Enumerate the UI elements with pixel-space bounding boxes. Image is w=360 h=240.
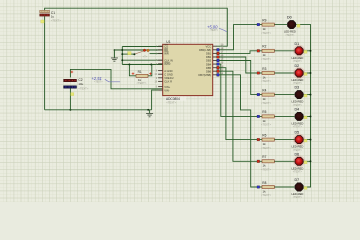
pin-voltage marker 0V yellow on D7 cathode <box>304 187 307 190</box>
resistor R4 <box>262 93 274 96</box>
svg-text:WR: WR <box>164 52 169 56</box>
node logic state square and number pin 20 VCC <box>221 43 224 46</box>
node logic state indicator at R5 <box>257 115 260 118</box>
resistor R6 <box>262 138 274 141</box>
wire row D7 resistor to LED and cathode to bus <box>257 186 311 188</box>
junction RD wire / ground stem <box>114 49 116 51</box>
svg-text:D7: D7 <box>295 178 300 182</box>
pin 9 VREF/2 left stub <box>156 76 174 80</box>
wire DB0 net to LED row <box>216 25 257 50</box>
wire C2 negative lead to ground rail <box>69 88 71 109</box>
node logic state indicator at R8 <box>257 186 260 189</box>
svg-text:CLK IN: CLK IN <box>164 58 173 62</box>
pin 5 INTR left stub <box>156 62 171 66</box>
resistor R2 <box>262 49 274 52</box>
wire VCC net: C1 top to U1 VCC pin 20 <box>45 8 228 46</box>
svg-text:VIN+: VIN+ <box>164 85 170 89</box>
svg-text:10u: 10u <box>78 82 83 86</box>
wire row D0 resistor to LED and cathode to bus <box>257 24 311 26</box>
pin 11 DB7(MSB) right stub <box>198 73 223 77</box>
svg-text:R4: R4 <box>262 88 266 92</box>
pin-voltage marker 0V yellow on D5 cathode <box>304 139 307 142</box>
wire CLK IN pin 4 <box>122 59 162 61</box>
LED D7 <box>295 183 303 191</box>
wire DB5 net to LED row <box>216 68 257 140</box>
node logic state square and number pin 16 DB2 <box>217 54 224 58</box>
op-amp U1 ADC0804 body <box>163 44 213 95</box>
wire row D2 resistor to LED and cathode to bus <box>257 72 311 74</box>
LED D2 <box>293 67 305 79</box>
svg-text:ADC0804: ADC0804 <box>166 97 180 101</box>
svg-text:<T>: <T> <box>143 56 148 59</box>
svg-text:<TEXT>: <TEXT> <box>136 81 146 85</box>
svg-text:DB7(MSB): DB7(MSB) <box>198 73 211 77</box>
pin-voltage marker 0V yellow on D1 cathode <box>304 50 307 53</box>
pin 8 A GND left stub <box>156 69 173 73</box>
wire row D1 resistor to LED and cathode to bus <box>257 50 311 52</box>
junction INTR wire / R1 right leg <box>150 64 152 66</box>
node logic state indicator at R6 <box>257 138 260 141</box>
svg-text:INTR: INTR <box>164 62 170 66</box>
wire R1 left leg <box>129 65 136 76</box>
wire row D5 resistor to LED and cathode to bus <box>257 139 311 141</box>
wire ground rail horizontal <box>45 109 152 111</box>
LED D0 <box>288 21 296 29</box>
junction D1 cathode on bus <box>310 50 312 52</box>
junction D5 cathode on bus <box>310 139 312 141</box>
pin 19 CLK R left stub <box>154 80 172 84</box>
node logic state indicator at R3 <box>257 72 260 75</box>
ground symbol GND2 on RD/CS net <box>113 50 115 58</box>
svg-text:CLK R: CLK R <box>164 80 172 84</box>
svg-text:+2.51: +2.51 <box>91 76 101 81</box>
svg-text:CS: CS <box>164 44 168 48</box>
pin 15 DB3 right stub <box>206 59 224 63</box>
svg-text:R7: R7 <box>262 155 266 159</box>
LED D5 <box>293 134 305 146</box>
svg-text:<TEXT>: <TEXT> <box>293 196 303 199</box>
svg-text:C GND: C GND <box>164 72 173 76</box>
pin 12 DB6 right stub <box>206 69 224 73</box>
svg-text:<TEXT>: <TEXT> <box>293 149 303 152</box>
node logic state square and number pin 11 DB7(MSB) <box>217 72 224 76</box>
node logic state square and number pin 15 DB3 <box>217 58 224 62</box>
wire VIN- pin 7 riser from ground rail <box>152 90 159 110</box>
resistor R5 <box>262 115 274 118</box>
svg-text:D4: D4 <box>295 108 300 112</box>
resistor R9 <box>262 23 274 26</box>
node logic state indicator at R9 <box>257 23 260 26</box>
junction D2 cathode on bus <box>310 72 312 74</box>
voltage probe VIN+ blue annotation <box>91 76 120 84</box>
LED D6 <box>293 155 305 167</box>
junction CS column / button wire <box>121 53 123 55</box>
svg-text:<TEXT>: <TEXT> <box>261 79 271 83</box>
pin 4 CLK IN left stub <box>156 58 173 62</box>
wire LED cathode bus vertical <box>310 25 312 187</box>
push button actuator blade <box>134 51 143 54</box>
wire DB3 net to LED row <box>216 61 257 95</box>
wire CS pin 1 to ground column <box>122 46 162 48</box>
svg-text:RD: RD <box>164 48 168 52</box>
wire DB1 net to LED row <box>216 51 257 54</box>
pin-voltage marker 0V yellow on D0 cathode <box>297 24 300 27</box>
LED D1 <box>293 45 305 57</box>
svg-text:<TEXT>: <TEXT> <box>261 31 271 35</box>
svg-text:<TEXT>: <TEXT> <box>261 123 271 127</box>
node logic state square and number pin 17 DB1 <box>217 51 224 55</box>
junction D3 cathode on bus <box>310 94 312 96</box>
pin 7 VIN- left stub <box>156 88 170 92</box>
voltage probe VCC blue annotation <box>207 24 227 32</box>
push button contact red <box>143 49 146 52</box>
pin 16 DB2 right stub <box>206 55 224 59</box>
pin 3 WR left stub <box>156 52 169 56</box>
svg-text:D5: D5 <box>295 131 300 135</box>
wire button left terminal <box>122 53 134 55</box>
svg-text:<TEXT>: <TEXT> <box>94 81 103 84</box>
svg-text:VIN-: VIN- <box>164 88 169 92</box>
svg-text:<TEXT>: <TEXT> <box>285 34 295 37</box>
junction INTR wire / R1 left leg <box>128 64 130 66</box>
svg-text:<TEXT>: <TEXT> <box>210 29 219 32</box>
svg-text:R3: R3 <box>262 67 266 71</box>
node logic state square and number pin 12 DB6 <box>217 68 224 72</box>
pin-voltage marker + left of R1 <box>132 72 135 75</box>
svg-text:<TEXT>: <TEXT> <box>261 101 271 105</box>
pin-voltage marker + right of R1 <box>149 72 152 75</box>
svg-text:<TEXT>: <TEXT> <box>293 60 303 63</box>
svg-text:<TEXT>: <TEXT> <box>293 104 303 107</box>
pin 10 C GND left stub <box>154 72 173 76</box>
junction D4 cathode on bus <box>310 115 312 117</box>
junction ground rail / C2 negative <box>69 109 71 111</box>
wire DB2 net to LED row <box>216 57 257 73</box>
ground symbol GND1 <box>149 110 151 114</box>
svg-text:D6: D6 <box>295 152 300 156</box>
pin-voltage marker 0V yellow on D6 cathode <box>304 161 307 164</box>
resistor R7 <box>262 160 274 163</box>
pin 13 DB5 right stub <box>206 66 224 70</box>
node logic state square and number pin 18 DB0(LSB) <box>217 47 224 51</box>
capacitor C1 top plate <box>40 10 50 12</box>
pin 18 DB0(LSB) right stub <box>199 48 224 52</box>
svg-text:<TEXT>: <TEXT> <box>293 126 303 129</box>
svg-text:1u: 1u <box>51 15 55 19</box>
svg-text:<TEXT>: <TEXT> <box>51 19 61 23</box>
wire INTR pin 5 horizontal <box>122 64 162 66</box>
svg-text:R5: R5 <box>262 110 266 114</box>
wire RD pin 2 <box>114 49 162 51</box>
node logic state indicator at R7 <box>257 160 260 163</box>
pin-voltage marker 0V yellow on C2 negative <box>71 93 74 96</box>
pin-voltage marker 0V yellow on C1 negative <box>41 20 44 23</box>
resistor R8 <box>262 185 274 188</box>
LED D3 <box>295 91 303 99</box>
node logic state square and number pin 13 DB5 <box>217 65 224 69</box>
node logic state indicator at R2 <box>257 50 260 53</box>
capacitor C1 bottom plate <box>40 14 50 16</box>
pin 17 DB1 right stub <box>206 52 224 56</box>
pin 2 RD left stub <box>156 48 168 52</box>
wire vertical ground column left of U1 <box>121 47 123 65</box>
junction D6 cathode on bus <box>310 160 312 162</box>
svg-text:R2: R2 <box>262 45 266 49</box>
wire DB4 net to LED row <box>216 64 257 116</box>
junction CS column / RD wire <box>121 49 123 51</box>
svg-text:DB4: DB4 <box>206 62 212 66</box>
svg-text:<TEXT>: <TEXT> <box>261 168 271 172</box>
wire DB7 net to LED row <box>216 75 257 187</box>
node logic state indicator at R4 <box>257 93 260 96</box>
svg-text:DB2: DB2 <box>206 55 212 59</box>
svg-text:VREF/2: VREF/2 <box>164 76 174 80</box>
wire VIN+ net: C2 top to U1 VIN+ pin 6 <box>70 69 162 88</box>
wire R1 right leg <box>148 65 152 76</box>
wire row D3 resistor to LED and cathode to bus <box>257 94 311 96</box>
svg-text:VCC: VCC <box>206 44 212 48</box>
svg-text:DB3: DB3 <box>206 59 212 63</box>
label U1 part type ADC0804 <box>166 96 186 100</box>
wire row D6 resistor to LED and cathode to bus <box>257 160 311 162</box>
svg-text:R8: R8 <box>262 181 266 185</box>
svg-text:DB1: DB1 <box>206 52 212 56</box>
push button contact orange <box>147 49 150 52</box>
svg-text:D1: D1 <box>295 42 300 46</box>
svg-text:A GND: A GND <box>164 69 172 73</box>
LED D4 <box>295 112 303 120</box>
pin 20 VCC right stub <box>206 44 224 48</box>
pin-voltage marker 0V yellow on D2 cathode <box>304 73 307 76</box>
pin 6 VIN+ left stub <box>156 85 171 89</box>
resistor R3 <box>262 71 274 74</box>
pin 1 CS left stub <box>156 44 168 48</box>
pin-voltage marker + on C2 positive pin <box>71 71 74 74</box>
svg-text:<TEXT>: <TEXT> <box>261 57 271 61</box>
svg-text:R9: R9 <box>262 18 266 22</box>
svg-text:<TEXT>: <TEXT> <box>261 146 271 150</box>
capacitor C2 bottom plate (negative) <box>64 86 77 88</box>
wire row D4 resistor to LED and cathode to bus <box>257 115 311 117</box>
node logic state square and number pin 14 DB4 <box>217 61 224 65</box>
pin 14 DB4 right stub <box>206 62 224 66</box>
svg-text:R6: R6 <box>262 133 266 137</box>
junction CS column / CLK IN wire <box>121 59 123 61</box>
wire button right terminal to WR pin 3 <box>150 53 163 55</box>
wire C1 negative lead down left side to ground rail <box>44 16 46 109</box>
svg-text:DB6: DB6 <box>206 69 212 73</box>
pin-voltage marker 0V yellow on D4 cathode <box>304 116 307 119</box>
junction button left pivot <box>133 53 135 55</box>
svg-text:R1: R1 <box>138 70 142 74</box>
svg-text:D0: D0 <box>287 16 292 20</box>
svg-text:U1: U1 <box>166 40 170 44</box>
svg-text:<TEXT>: <TEXT> <box>166 101 176 105</box>
resistor R1 body <box>136 74 148 77</box>
svg-text:<TEXT>: <TEXT> <box>78 87 88 91</box>
wire DB6 net to LED row <box>216 71 257 161</box>
svg-text:DB0(LSB): DB0(LSB) <box>199 48 211 52</box>
svg-text:+5.00: +5.00 <box>207 24 218 29</box>
svg-text:<TEXT>: <TEXT> <box>293 171 303 174</box>
capacitor C2 top plate (positive) <box>64 79 77 81</box>
svg-text:D2: D2 <box>295 64 300 68</box>
svg-text:<TEXT>: <TEXT> <box>261 193 271 197</box>
pin-voltage marker 0V yellow on D3 cathode <box>304 94 307 97</box>
junction ground rail / GND symbol stem <box>147 109 149 111</box>
svg-text:DB5: DB5 <box>206 66 212 70</box>
pin-voltage marker 0V yellow on button pin <box>128 52 131 55</box>
svg-text:D3: D3 <box>295 86 300 90</box>
